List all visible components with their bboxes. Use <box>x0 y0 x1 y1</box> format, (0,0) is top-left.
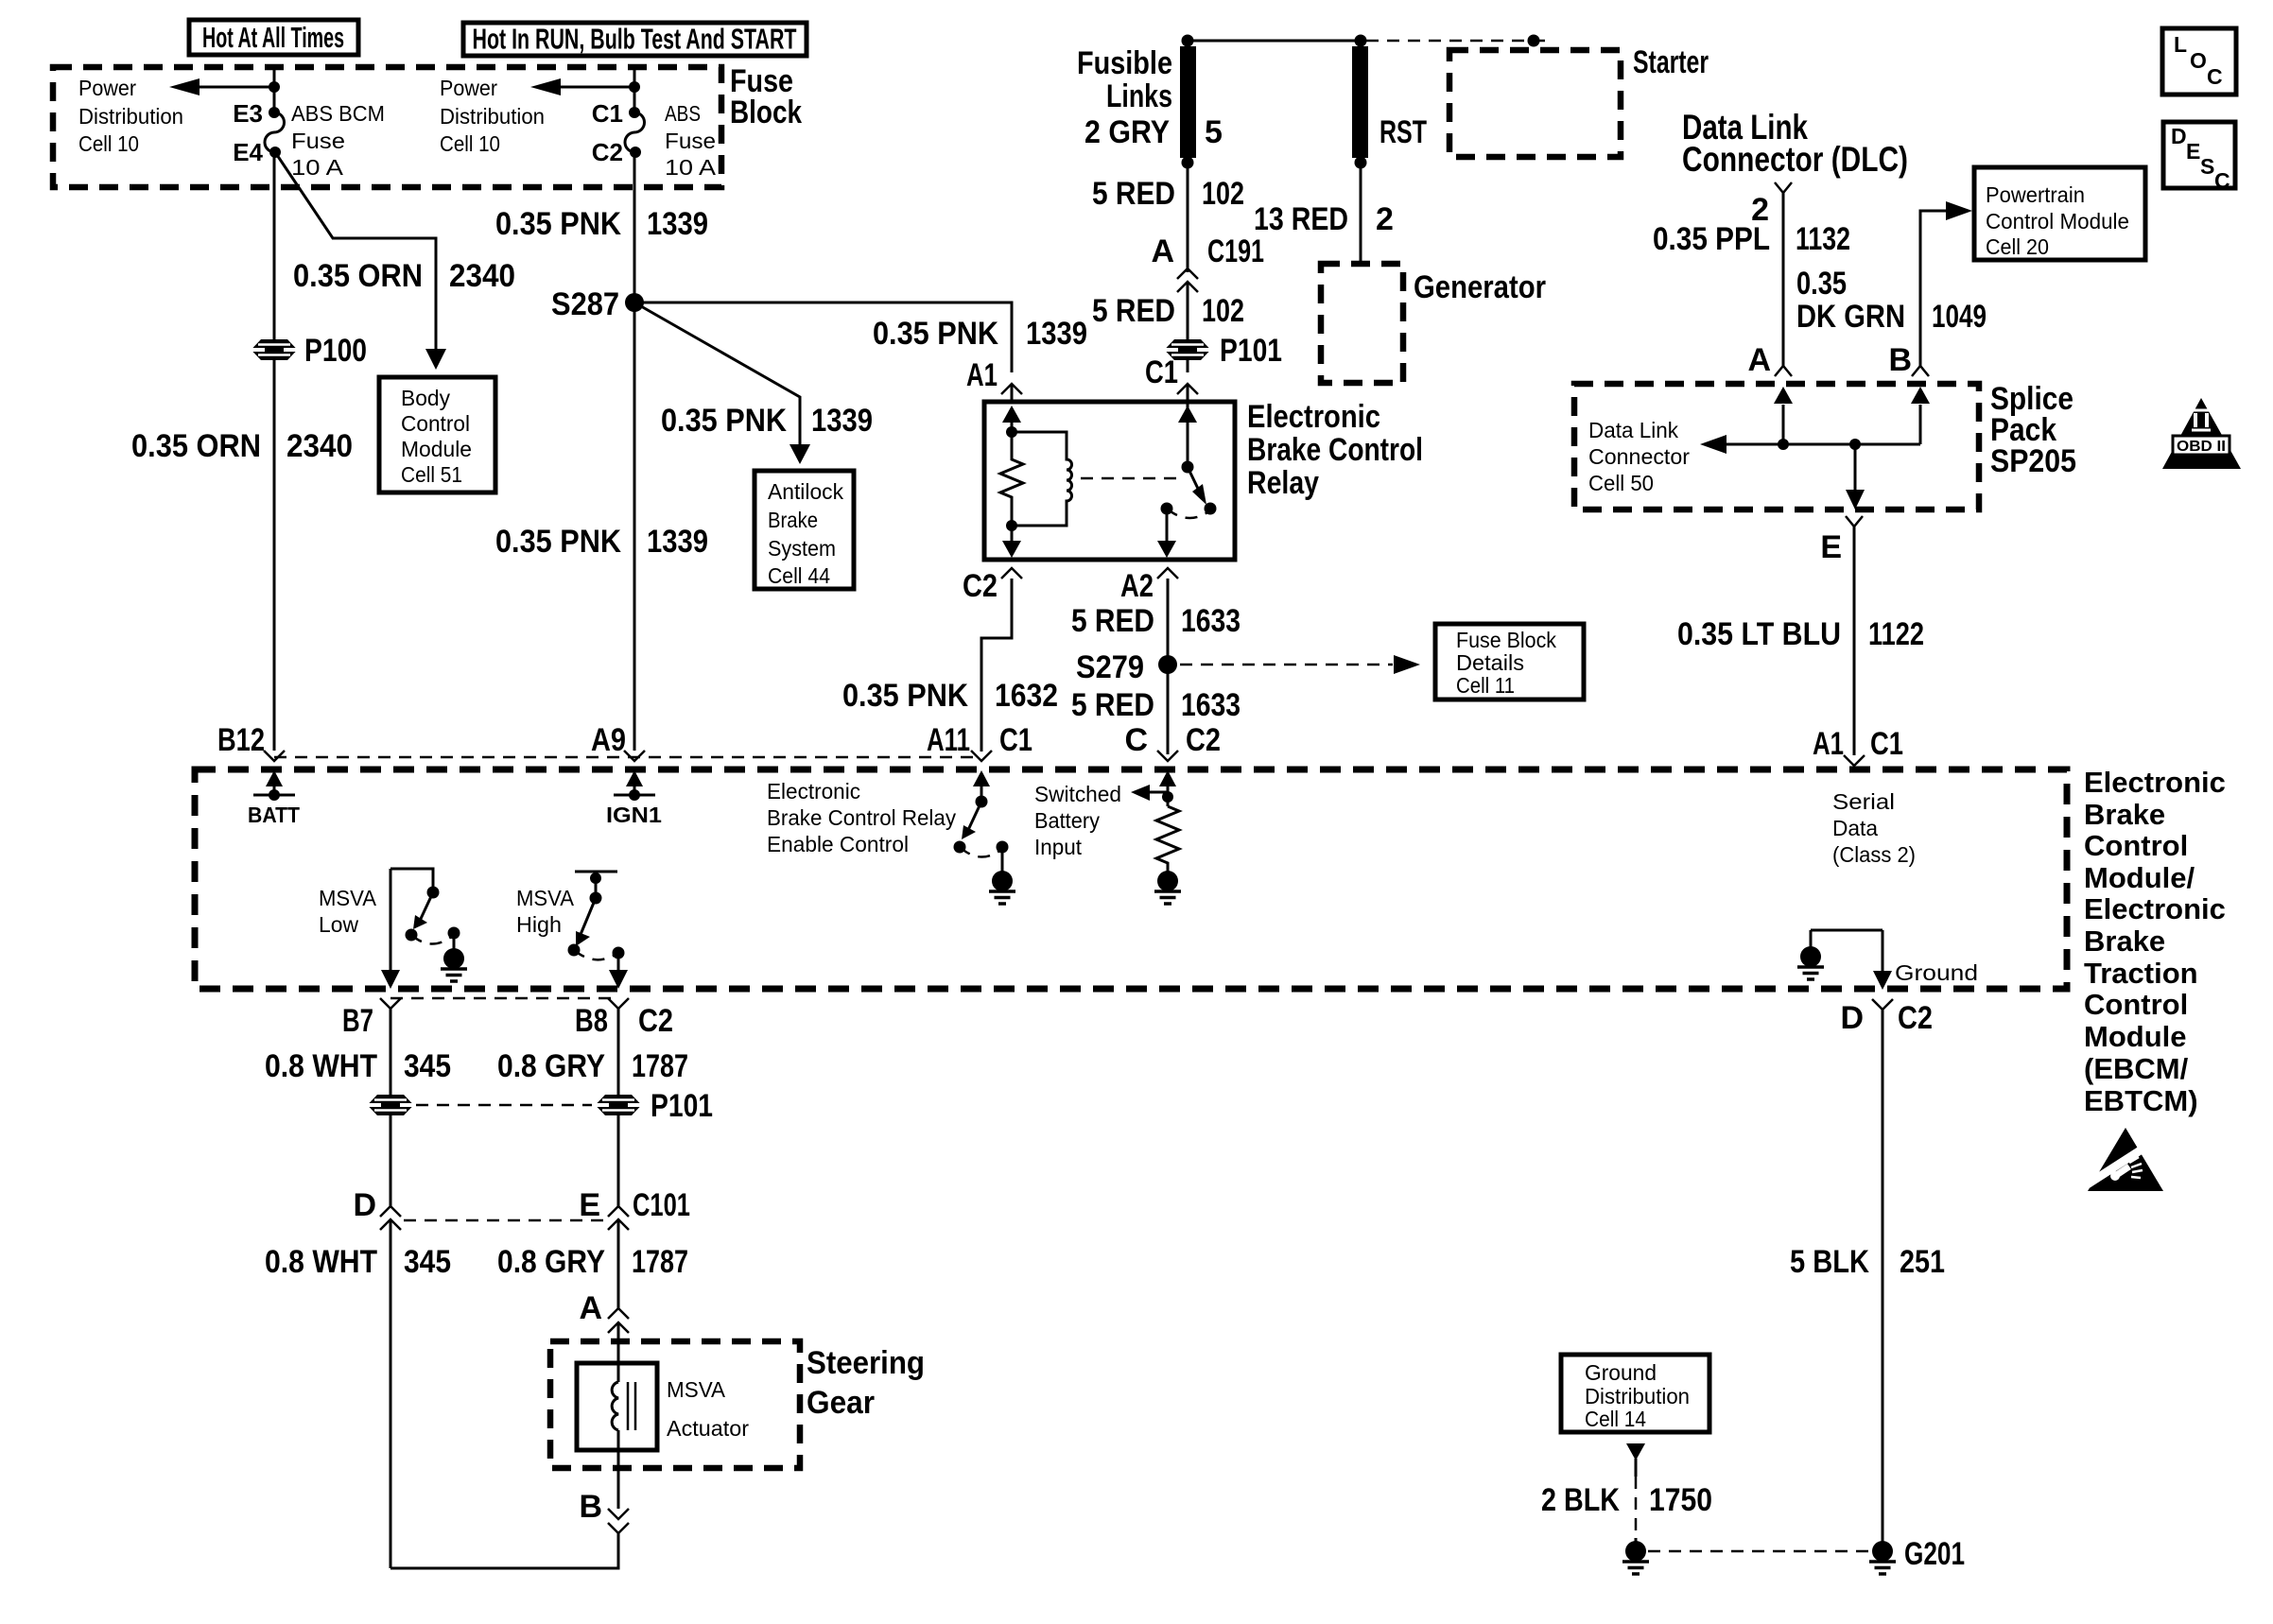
svg-text:E4: E4 <box>233 138 263 166</box>
fusible link 5 (left bar) <box>1180 35 1196 169</box>
MSVA High label <box>516 886 575 937</box>
svg-text:Brake Control Relay: Brake Control Relay <box>767 805 956 830</box>
label 0.35 PNK 1632 <box>842 678 1058 714</box>
splice bus wire <box>1725 443 1920 446</box>
svg-text:C101: C101 <box>633 1187 690 1223</box>
resistor (switched battery input) <box>1156 806 1179 871</box>
DLC pin 2 connector <box>1751 182 1792 228</box>
svg-text:0.35 ORN: 0.35 ORN <box>293 258 423 294</box>
svg-text:A9: A9 <box>591 722 626 758</box>
svg-text:Battery: Battery <box>1034 808 1100 833</box>
terminal E <box>1820 516 1863 565</box>
wire E4 jog to Body Control Module arrow <box>275 152 436 351</box>
svg-text:Module/: Module/ <box>2084 861 2195 894</box>
text Electronic Brake Control Relay Enable Control <box>767 779 956 856</box>
svg-text:C: C <box>2207 64 2223 89</box>
svg-text:Traction: Traction <box>2084 957 2198 990</box>
DESC box <box>2163 122 2235 193</box>
text "ABS BCM Fuse 10 A" <box>291 101 385 180</box>
svg-text:A11: A11 <box>927 722 970 758</box>
box Ground Distribution Cell 14 <box>1561 1355 1709 1432</box>
connector chevron C1 <box>1177 384 1198 394</box>
resistor (relay) <box>1000 432 1023 526</box>
svg-text:Cell 20: Cell 20 <box>1986 234 2049 259</box>
svg-text:0.35: 0.35 <box>1796 266 1847 302</box>
svg-text:A: A <box>579 1290 602 1326</box>
ground (switched battery input) <box>1154 868 1181 904</box>
relay node bottom <box>1006 520 1017 531</box>
svg-text:System: System <box>768 536 836 561</box>
svg-text:1787: 1787 <box>632 1244 688 1280</box>
wire C1 stub into relay <box>1187 384 1189 402</box>
label Electronic Brake Control Relay <box>1247 399 1423 501</box>
svg-text:Starter: Starter <box>1633 44 1709 80</box>
dashed arrow S279 to Fuse Block Details <box>1180 655 1420 674</box>
box Powertrain Control Module Cell 20 <box>1974 167 2145 260</box>
wire from top edge to fuse C1 <box>633 67 636 112</box>
svg-text:(Class 2): (Class 2) <box>1832 842 1916 867</box>
svg-text:C: C <box>1124 722 1148 758</box>
svg-text:C1: C1 <box>999 722 1032 758</box>
svg-text:MSVA: MSVA <box>667 1377 726 1402</box>
svg-text:EBTCM): EBTCM) <box>2084 1084 2198 1117</box>
terminal B8 / C2 <box>575 998 673 1039</box>
switched battery input wire arrow (up) <box>1159 770 1176 806</box>
relay coil-switch dashed link <box>1081 477 1182 480</box>
box Body Control Module Cell 51 <box>379 377 495 492</box>
wire DLC pin2 down to splice A <box>1782 193 1785 366</box>
svg-text:Actuator: Actuator <box>667 1416 749 1441</box>
ESD sensitive triangle <box>2086 1128 2163 1191</box>
svg-text:5 BLK: 5 BLK <box>1790 1244 1869 1280</box>
svg-text:1132: 1132 <box>1796 221 1850 257</box>
svg-text:A1: A1 <box>1813 726 1844 762</box>
fuse ABS (C1-C2) <box>625 107 645 158</box>
svg-text:A1: A1 <box>966 357 998 393</box>
wire S287 diagonal to Antilock box <box>634 302 800 446</box>
svg-text:Fuse: Fuse <box>291 129 345 153</box>
svg-text:102: 102 <box>1202 176 1244 212</box>
terminal B (steering gear out) <box>579 1489 629 1533</box>
svg-text:Brake: Brake <box>768 508 818 532</box>
BATT input arrow <box>248 770 300 827</box>
box Antilock Brake System Cell 44 <box>755 471 854 589</box>
svg-text:P100: P100 <box>304 333 367 369</box>
svg-text:Fuse: Fuse <box>665 129 716 153</box>
relay switch arm <box>1188 467 1206 505</box>
svg-text:0.35 LT BLU: 0.35 LT BLU <box>1677 616 1841 652</box>
svg-text:A2: A2 <box>1120 568 1154 604</box>
svg-text:Low: Low <box>319 912 358 937</box>
coil (relay) <box>1012 432 1072 526</box>
svg-text:1339: 1339 <box>647 524 708 560</box>
connector chevron A2 <box>1157 568 1178 579</box>
svg-text:1633: 1633 <box>1181 603 1241 639</box>
svg-text:0.8 WHT: 0.8 WHT <box>265 1244 377 1280</box>
svg-text:DK GRN: DK GRN <box>1796 299 1905 335</box>
label 5 BLK 251 <box>1790 1244 1945 1280</box>
relay coil branch arrow (up) <box>1002 406 1021 432</box>
wire splice B up to PCM <box>1920 211 1948 366</box>
svg-text:Distribution: Distribution <box>78 104 183 129</box>
svg-text:RST: RST <box>1379 114 1427 150</box>
connector P101 pair (right) <box>596 1088 714 1124</box>
label 5 RED 102 (upper) <box>1092 176 1244 212</box>
connector chevron C2 <box>1001 568 1022 579</box>
switched battery arrow (left) <box>1131 785 1168 801</box>
svg-text:2340: 2340 <box>449 258 515 294</box>
wire from top edge to fuse E3 <box>273 67 276 112</box>
label 0.35 PPL 1132 <box>1653 221 1850 257</box>
EBCM internal ground <box>1811 930 1883 946</box>
wire S287 to relay A1 <box>634 302 1012 372</box>
text Data Link Connector Cell 50 <box>1588 418 1690 495</box>
svg-text:0.35 PNK: 0.35 PNK <box>842 678 968 714</box>
svg-text:E3: E3 <box>233 99 263 128</box>
wire A1 stub into relay <box>1011 384 1014 402</box>
svg-text:1049: 1049 <box>1932 299 1987 335</box>
terminal A (steering gear) <box>579 1290 629 1333</box>
svg-text:Relay: Relay <box>1247 465 1319 501</box>
svg-text:Electronic: Electronic <box>767 779 860 803</box>
text "Power Distribution Cell 10" (right) <box>440 76 545 156</box>
svg-text:Serial: Serial <box>1832 789 1895 814</box>
ground (enable control) <box>989 868 1015 904</box>
label 0.8 WHT 345 (lower) <box>265 1244 451 1280</box>
svg-text:Powertrain: Powertrain <box>1986 182 2085 207</box>
thin dashed connector line C101 <box>404 1219 605 1222</box>
svg-text:2340: 2340 <box>286 428 353 464</box>
svg-text:High: High <box>516 912 562 937</box>
relay node top <box>1006 426 1017 438</box>
terminal A11 / C1 <box>927 722 1032 761</box>
dashed link between grounds <box>1648 1550 1869 1553</box>
svg-text:S279: S279 <box>1076 649 1144 685</box>
svg-text:Enable Control: Enable Control <box>767 832 909 856</box>
wire B7 down to C101 D <box>390 1009 392 1206</box>
svg-text:Details: Details <box>1456 650 1524 675</box>
svg-text:Module: Module <box>2084 1020 2187 1053</box>
relay coil branch arrow (down) <box>1002 526 1021 558</box>
svg-text:Generator: Generator <box>1414 269 1546 305</box>
svg-text:SP205: SP205 <box>1990 443 2076 479</box>
svg-text:A: A <box>1747 342 1771 378</box>
terminal D / C2 (ground) <box>1840 999 1933 1036</box>
label 0.35 ORN 2340 (upper) <box>293 258 515 294</box>
svg-text:Cell 50: Cell 50 <box>1588 471 1654 495</box>
splice B arrow (up) <box>1911 387 1930 444</box>
label Electronic Brake Control Module / EBTCM stack <box>2084 766 2226 1117</box>
connector P101 pair (left) <box>368 1095 414 1115</box>
LOC box <box>2162 28 2236 95</box>
label Steering Gear <box>807 1345 925 1421</box>
relay switch pivot <box>1182 461 1194 474</box>
svg-text:B: B <box>579 1489 602 1525</box>
svg-text:Fusible: Fusible <box>1077 45 1172 81</box>
svg-text:Switched: Switched <box>1034 782 1121 806</box>
wire relay A2 down to C <box>1167 579 1170 754</box>
svg-text:OBD II: OBD II <box>2177 439 2226 455</box>
terminal B12 <box>217 722 285 761</box>
MSVA High switch <box>568 872 625 959</box>
svg-text:Distribution: Distribution <box>440 104 545 129</box>
svg-text:5: 5 <box>1205 114 1223 150</box>
svg-text:(EBCM/: (EBCM/ <box>2084 1052 2189 1085</box>
splice S287 <box>551 286 644 322</box>
svg-text:Input: Input <box>1034 835 1083 859</box>
label 5 RED 102 (lower) <box>1092 293 1244 329</box>
splice node A <box>1778 439 1789 450</box>
MSVA actuator box <box>577 1363 657 1450</box>
wire joining fusible links tops <box>1188 40 1361 43</box>
wire E down to steering A <box>617 1219 620 1308</box>
label 2 BLK 1750 <box>1541 1482 1712 1518</box>
arrow to Power Distribution (right) <box>530 78 634 95</box>
wire B to bottom loop <box>390 1533 618 1568</box>
arrow into Antilock box <box>789 444 810 464</box>
svg-text:ABS: ABS <box>665 101 701 126</box>
svg-text:2 BLK: 2 BLK <box>1541 1482 1620 1518</box>
svg-text:0.8 GRY: 0.8 GRY <box>497 1244 605 1280</box>
svg-text:Connector (DLC): Connector (DLC) <box>1682 140 1908 179</box>
svg-text:Power: Power <box>78 76 136 100</box>
label Splice Pack SP205 <box>1990 381 2076 479</box>
svg-text:1339: 1339 <box>647 206 708 242</box>
svg-text:S: S <box>2200 154 2214 179</box>
relay A2 wire and arrow (down) <box>1157 509 1176 558</box>
svg-text:P101: P101 <box>651 1088 713 1124</box>
svg-text:2 GRY: 2 GRY <box>1084 114 1170 150</box>
label 0.8 GRY 1787 (lower) <box>497 1244 688 1280</box>
svg-text:Brake Control: Brake Control <box>1247 432 1423 468</box>
starter dashed box <box>1449 50 1621 157</box>
svg-text:C2: C2 <box>592 138 623 166</box>
svg-text:E: E <box>1820 529 1842 565</box>
wire actuator to B <box>617 1430 620 1509</box>
svg-text:1633: 1633 <box>1181 687 1241 723</box>
svg-text:Cell 44: Cell 44 <box>768 563 830 588</box>
svg-text:B8: B8 <box>575 1003 608 1039</box>
svg-text:Ground: Ground <box>1895 960 1978 985</box>
svg-text:102: 102 <box>1202 293 1244 329</box>
header box "Hot At All Times" <box>189 20 358 55</box>
label "Fuse Block" <box>730 63 802 130</box>
svg-text:O: O <box>2190 48 2207 73</box>
svg-text:IGN1: IGN1 <box>606 803 662 827</box>
arrow to Data Link Connector Cell 50 <box>1700 435 1726 454</box>
svg-text:Electronic: Electronic <box>1247 399 1380 435</box>
svg-text:1750: 1750 <box>1649 1482 1712 1518</box>
arrow into Body Control Module <box>425 349 446 370</box>
text Serial Data (Class 2) <box>1832 789 1916 867</box>
svg-text:C2: C2 <box>963 568 998 604</box>
svg-text:D: D <box>353 1187 376 1223</box>
ground G201 <box>1869 1536 1965 1574</box>
label 0.8 WHT 345 (upper) <box>265 1048 451 1084</box>
terminal B7 <box>342 998 401 1039</box>
splice E arrow (down) <box>1846 444 1865 510</box>
svg-text:5 RED: 5 RED <box>1071 603 1154 639</box>
dashed link P101 <box>416 1104 592 1107</box>
svg-text:0.35 PPL: 0.35 PPL <box>1653 221 1770 257</box>
svg-text:Gear: Gear <box>807 1385 875 1421</box>
svg-text:Electronic: Electronic <box>2084 892 2226 925</box>
svg-text:Connector: Connector <box>1588 444 1690 469</box>
label 5 RED 1633 (lower) <box>1071 687 1241 723</box>
text "Power Distribution Cell 10" (left) <box>78 76 183 156</box>
svg-text:Body: Body <box>401 386 450 410</box>
wire E down to EBCM A1 <box>1853 527 1856 755</box>
wire fusible 5 down to C191 <box>1187 158 1189 272</box>
svg-text:Data: Data <box>1832 816 1878 840</box>
svg-text:Hot At All Times: Hot At All Times <box>202 21 344 54</box>
connector chevron A <box>1775 366 1792 376</box>
svg-text:C2: C2 <box>1898 1000 1933 1036</box>
svg-text:Control: Control <box>401 411 470 436</box>
svg-text:Cell 10: Cell 10 <box>440 131 500 156</box>
svg-text:251: 251 <box>1900 1244 1945 1280</box>
wire A into steering gear <box>617 1322 620 1382</box>
svg-text:2: 2 <box>1376 201 1394 237</box>
relay box Electronic Brake Control Relay <box>984 402 1235 560</box>
dashed wire to starter <box>1366 35 1545 47</box>
svg-text:Module: Module <box>401 437 472 461</box>
terminal D (C101) <box>353 1187 401 1230</box>
OBD II triangle <box>2162 398 2241 469</box>
label 0.35 PNK 1339 (lower) <box>495 524 708 560</box>
terminal A1 / C1 (serial data) <box>1813 726 1903 766</box>
relay switch common wire <box>1187 402 1189 467</box>
arrow to Power Distribution (left) <box>169 78 274 95</box>
svg-text:Block: Block <box>730 95 802 130</box>
svg-text:Cell 11: Cell 11 <box>1456 673 1515 698</box>
terminal A9 <box>591 722 645 761</box>
svg-text:Links: Links <box>1106 78 1172 114</box>
wire C2 down to A9 <box>633 152 636 751</box>
svg-text:Ground: Ground <box>1585 1360 1657 1385</box>
svg-text:Antilock: Antilock <box>768 479 843 504</box>
svg-text:BATT: BATT <box>248 803 300 827</box>
splice pack dashed box SP205 <box>1574 384 1979 510</box>
svg-text:0.35 PNK: 0.35 PNK <box>661 403 787 439</box>
wire B8 down to C101 E <box>617 1009 620 1206</box>
label 0.35 PNK 1339 (relay feed) <box>873 316 1087 352</box>
enable control switch <box>954 770 1009 871</box>
svg-text:C1: C1 <box>1870 726 1903 762</box>
label 0.35 DK GRN 1049 <box>1796 266 1987 335</box>
relay switch contacts <box>1161 503 1173 515</box>
junction dot <box>269 81 280 93</box>
svg-text:5 RED: 5 RED <box>1071 687 1154 723</box>
terminal E / C101 <box>579 1187 690 1230</box>
svg-text:0.35 PNK: 0.35 PNK <box>495 206 621 242</box>
label 0.35 LT BLU 1122 <box>1677 616 1924 652</box>
label 0.8 GRY 1787 (upper) <box>497 1048 688 1084</box>
connector chevron B <box>1912 366 1929 376</box>
fuse ABS BCM (E3-E4) <box>265 107 285 158</box>
svg-text:G201: G201 <box>1904 1536 1965 1572</box>
splice node E <box>1849 439 1861 450</box>
wire C191 to P101 <box>1187 282 1189 339</box>
thin dashed connector line C2 (B7-B8) <box>390 997 618 1000</box>
thin dashed connector line C1 (B12-A9-A11) <box>274 756 981 759</box>
svg-text:E: E <box>579 1187 600 1223</box>
svg-text:Fuse Block: Fuse Block <box>1456 628 1556 652</box>
svg-text:Cell 10: Cell 10 <box>78 131 139 156</box>
svg-text:5 RED: 5 RED <box>1092 176 1175 212</box>
text "ABS Fuse 10 A" <box>665 101 717 180</box>
svg-text:D: D <box>2171 124 2187 148</box>
terminal C / C2 <box>1124 722 1221 761</box>
MSVA actuator core <box>628 1382 635 1430</box>
fuse block dashed box <box>53 67 721 187</box>
svg-text:C2: C2 <box>638 1003 673 1039</box>
junction dot <box>629 81 640 93</box>
svg-text:C1: C1 <box>592 99 623 128</box>
svg-text:Control: Control <box>2084 988 2188 1021</box>
ground (MSVA low) <box>441 945 467 981</box>
EBCM dashed box <box>195 769 2067 989</box>
box Fuse Block Details Cell 11 <box>1435 624 1584 700</box>
generator dashed box <box>1321 264 1403 383</box>
svg-text:10 A: 10 A <box>665 155 717 180</box>
fusible link RST (right bar) <box>1352 35 1368 169</box>
svg-text:C: C <box>2214 168 2230 193</box>
arrow into PCM <box>1946 201 1972 220</box>
svg-text:L: L <box>2174 32 2187 57</box>
wire D down to G201 <box>1882 1010 1884 1551</box>
svg-text:5 RED: 5 RED <box>1092 293 1175 329</box>
steering gear dashed box <box>550 1341 800 1468</box>
svg-text:13 RED: 13 RED <box>1254 201 1348 237</box>
IGN1 input arrow <box>606 770 662 827</box>
connector P100 <box>252 333 368 369</box>
arrow from Ground Distribution <box>1626 1443 1645 1477</box>
svg-text:A: A <box>1151 233 1174 269</box>
svg-text:345: 345 <box>404 1048 451 1084</box>
svg-text:Steering: Steering <box>807 1345 925 1381</box>
svg-text:1339: 1339 <box>1026 316 1087 352</box>
ground (ground distribution) <box>1622 1538 1649 1574</box>
connector A C191 (double chevron) <box>1151 233 1264 292</box>
svg-text:0.35 PNK: 0.35 PNK <box>495 524 621 560</box>
svg-text:Electronic: Electronic <box>2084 766 2226 799</box>
svg-text:Cell 51: Cell 51 <box>401 462 462 487</box>
dashed wire 2 BLK <box>1635 1477 1638 1541</box>
svg-text:C191: C191 <box>1207 233 1264 269</box>
label 5 RED 1633 (upper) <box>1071 603 1241 639</box>
svg-text:B: B <box>1888 342 1912 378</box>
svg-text:E: E <box>2186 139 2200 164</box>
svg-text:0.35 PNK: 0.35 PNK <box>873 316 998 352</box>
svg-text:0.35 ORN: 0.35 ORN <box>131 428 261 464</box>
svg-text:B7: B7 <box>342 1003 373 1039</box>
wire relay C2 to A11 <box>981 579 1012 752</box>
svg-text:Control Module: Control Module <box>1986 209 2129 233</box>
svg-text:1122: 1122 <box>1868 616 1924 652</box>
connector P101 (top) <box>1165 333 1283 369</box>
svg-text:1339: 1339 <box>811 403 873 439</box>
svg-text:1787: 1787 <box>632 1048 688 1084</box>
wire MSVA low to B7 arrow <box>381 869 400 989</box>
svg-text:ABS BCM: ABS BCM <box>291 101 385 126</box>
splice S279 <box>1076 649 1177 685</box>
svg-text:Control: Control <box>2084 829 2188 862</box>
wire MSVA high to B8 arrow <box>609 953 628 989</box>
label Fusible Links 2 GRY <box>1077 45 1172 150</box>
svg-text:Brake: Brake <box>2084 798 2165 831</box>
svg-text:C1: C1 <box>1145 354 1178 390</box>
